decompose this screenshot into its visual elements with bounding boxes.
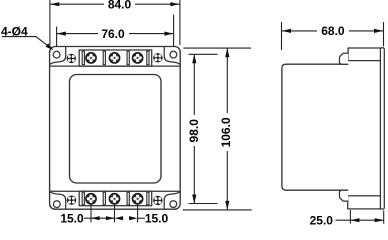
top-left pad line xyxy=(50,47,66,64)
bottom-left pad line xyxy=(50,192,66,209)
ear hole bottom-left xyxy=(53,201,60,208)
side view body xyxy=(282,64,348,190)
front view bottom flange boundary line xyxy=(50,190,179,192)
bottom band barrier 2 xyxy=(103,192,105,205)
dimension 76.0 extension line left xyxy=(56,27,58,48)
svg-text:76.0: 76.0 xyxy=(101,27,125,41)
side view top tab xyxy=(339,53,348,64)
dimension 106.0 extension line top xyxy=(183,47,251,49)
dimension 76.0 arrow left xyxy=(57,32,66,36)
front view outer body xyxy=(50,47,181,210)
side view bottom terminal block xyxy=(348,196,381,209)
front view top flange boundary line xyxy=(50,65,179,67)
ear hole top-right xyxy=(170,51,177,58)
big terminal screw top 3 xyxy=(132,53,142,63)
dimension 15.0 arrows left span xyxy=(91,216,100,220)
dimension 84.0 arrow right xyxy=(170,2,179,6)
dimension 98.0 arrow bottom xyxy=(192,195,196,204)
side view top terminal block xyxy=(348,48,380,61)
svg-text:106.0: 106.0 xyxy=(219,117,233,147)
ear hole bottom-right xyxy=(170,201,177,208)
dimension 15.0 span left xyxy=(91,217,115,219)
big terminal screw top 2 xyxy=(109,53,119,63)
svg-text:15.0: 15.0 xyxy=(145,211,169,225)
dimension 84.0 line xyxy=(50,3,179,5)
dimension 15.0 line right leader xyxy=(138,217,145,219)
dimension 76.0 arrow right xyxy=(164,32,173,36)
top-right pad line xyxy=(164,47,180,64)
dimension 84.0 arrow left xyxy=(50,2,59,6)
dimension 68.0 label xyxy=(317,25,349,36)
dimension 98.0 extension line bottom xyxy=(189,203,218,205)
small screw bottom-right xyxy=(153,196,162,205)
side view bottom tab xyxy=(339,190,348,201)
dimension 25.0 extension line left xyxy=(349,210,351,224)
15mm extension line from bottom screw 2 xyxy=(114,200,116,222)
bottom band barrier 3 xyxy=(127,192,129,205)
svg-text:15.0: 15.0 xyxy=(60,211,84,225)
dimension 68.0 arrow left xyxy=(282,29,291,33)
dimension 84.0 extension line left xyxy=(49,0,51,45)
small screw top-left xyxy=(67,54,76,63)
dimension 106.0 arrow top xyxy=(225,48,229,57)
dimension 68.0 arrow right xyxy=(374,29,383,33)
bottom band barrier 1 xyxy=(82,192,84,205)
dimension 25.0 line xyxy=(336,219,384,221)
svg-text:25.0: 25.0 xyxy=(310,213,334,227)
side view base plate xyxy=(380,48,384,209)
leader arrow 4-D4 xyxy=(46,43,54,50)
svg-text:84.0: 84.0 xyxy=(108,0,132,12)
dimension 25.0 arrow right xyxy=(375,218,384,222)
big terminal screw bottom 2 xyxy=(109,194,119,204)
top band barrier 4 xyxy=(147,51,149,64)
dimension 98.0 arrow top xyxy=(192,54,196,63)
small screw top-right xyxy=(153,53,162,62)
dimension 106.0 label xyxy=(222,113,232,151)
dimension 84.0 label xyxy=(104,0,135,10)
dimension 76.0 label xyxy=(98,29,129,39)
top terminal band xyxy=(79,50,152,66)
top band barrier 1 xyxy=(82,51,84,64)
bottom band barrier 4 xyxy=(147,192,149,205)
svg-text:98.0: 98.0 xyxy=(187,119,201,143)
leader line 4-D4 xyxy=(2,37,52,49)
15mm extension line from bottom screw 1 xyxy=(90,200,92,222)
dimension 25.0 extension line right xyxy=(383,211,385,224)
big terminal screw top 1 xyxy=(86,53,96,63)
dimension 106.0 extension line bottom xyxy=(183,209,252,211)
bottom-right pad line xyxy=(164,192,180,209)
dimension 76.0 line xyxy=(57,33,174,35)
dimension 15.0 line left leader xyxy=(84,217,91,219)
dimension 98.0 line xyxy=(193,54,195,203)
svg-text:68.0: 68.0 xyxy=(321,24,345,38)
dimension 84.0 extension line right xyxy=(179,0,181,45)
dimension 106.0 line xyxy=(226,48,228,210)
small screw bottom-left xyxy=(67,196,76,205)
top band barrier 3 xyxy=(127,51,129,64)
dimension 68.0 extension line left xyxy=(281,22,283,50)
big terminal screw bottom 3 xyxy=(132,194,142,204)
dimension 25.0 arrow left xyxy=(350,218,359,222)
ear hole top-left xyxy=(53,51,60,58)
big terminal screw bottom 1 xyxy=(86,194,96,204)
dimension 76.0 extension line right xyxy=(173,15,175,48)
dimension 15.0 arrows right span xyxy=(115,216,124,220)
dimension 98.0 extension line top xyxy=(189,53,218,55)
dimension 106.0 arrow bottom xyxy=(225,201,229,210)
dimension 98.0 label xyxy=(189,115,199,146)
inner label rect xyxy=(70,75,162,184)
15mm extension line from bottom screw 3 xyxy=(137,200,139,222)
top band barrier 2 xyxy=(103,51,105,64)
dimension 68.0 line xyxy=(282,30,383,32)
dimension 68.0 extension line right xyxy=(383,22,385,47)
bottom terminal band xyxy=(79,191,152,205)
